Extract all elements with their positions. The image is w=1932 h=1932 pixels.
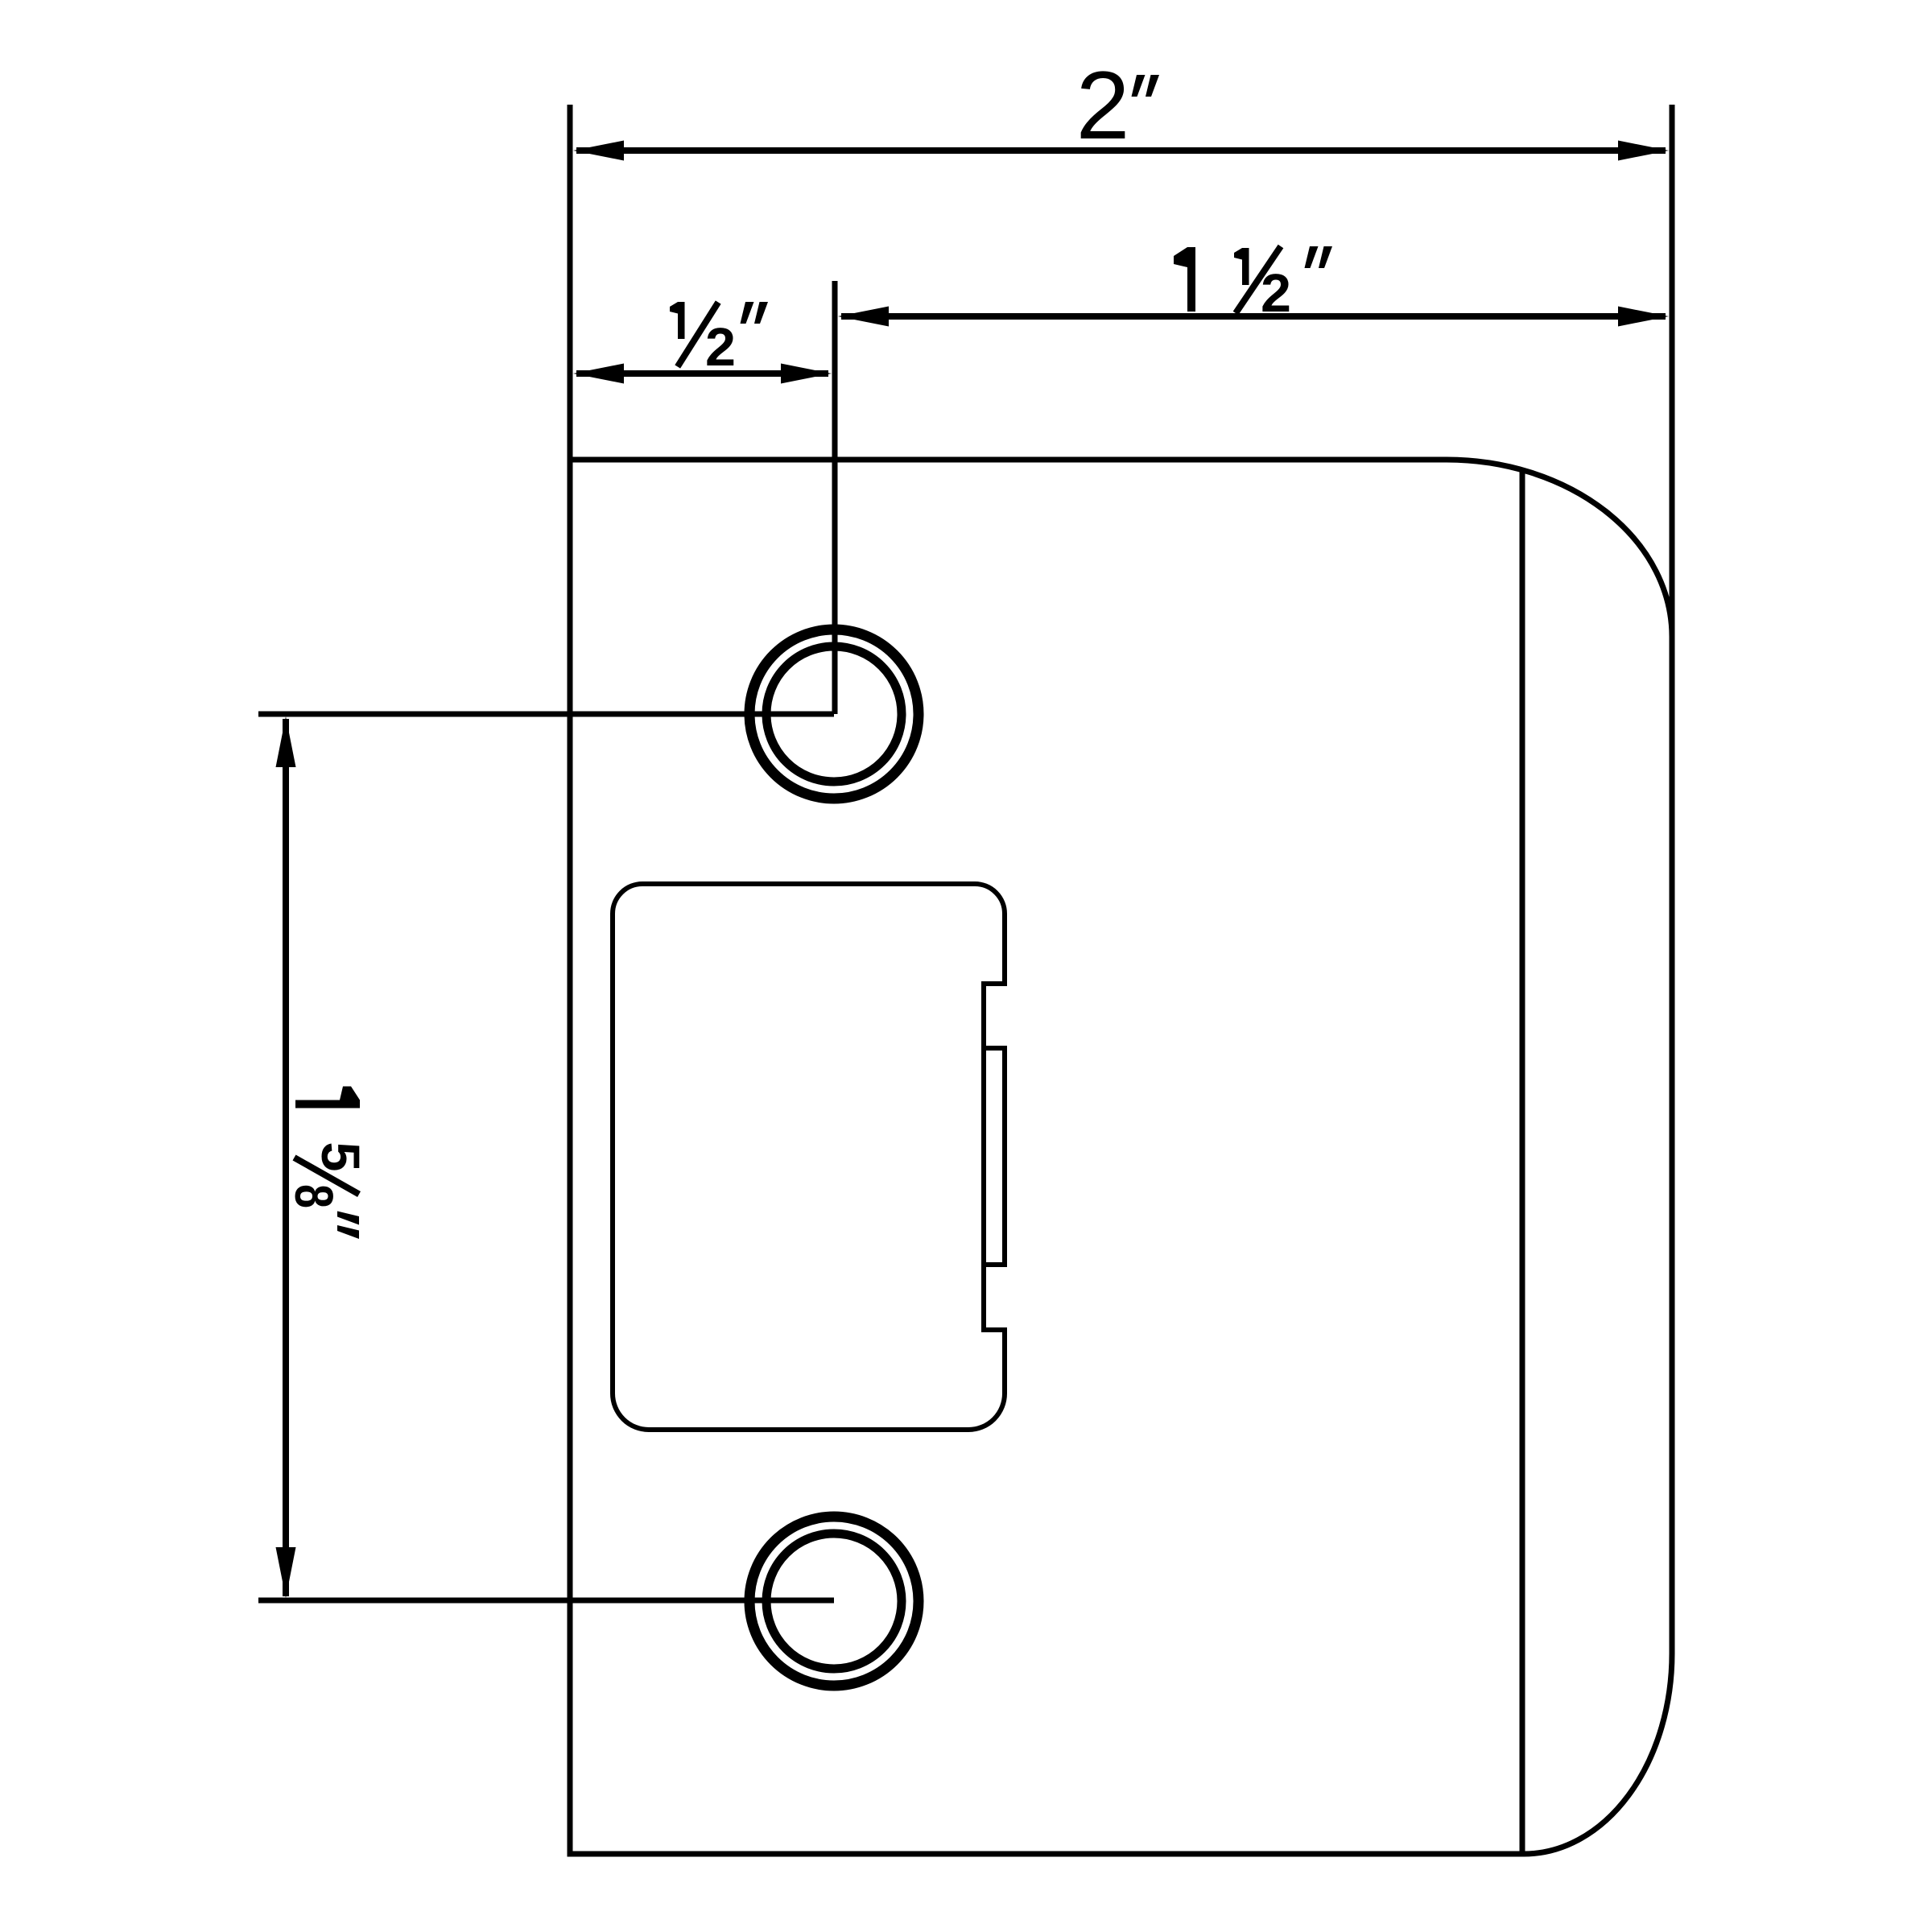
hole center extension line bottom: [258, 1598, 834, 1604]
1 5/8in dimension line (vertical): [283, 719, 289, 1596]
plate outline: [570, 460, 1672, 1854]
label 2 inch: [1076, 52, 1159, 159]
2in dimension line: [576, 147, 1666, 154]
extension line right (2in / 1.5in): [1670, 105, 1675, 640]
label 1/2 inch: [670, 302, 768, 378]
svg-text:2: 2: [705, 317, 736, 378]
bottom screw hole: [749, 1517, 919, 1686]
extension line middle (hole center): [832, 281, 838, 714]
label 1 5/8 inch (rotated 90deg): [283, 1087, 370, 1240]
1 1/2in dimension line: [841, 313, 1666, 320]
svg-text:2: 2: [1076, 52, 1130, 159]
svg-text:8: 8: [283, 1184, 344, 1208]
svg-text:5: 5: [310, 1142, 370, 1172]
latch opening: [613, 884, 1005, 1430]
latch tab: [984, 1048, 1005, 1265]
hole center extension line top: [258, 712, 834, 717]
plate lip fold line: [1520, 469, 1525, 1852]
extension line left (2in): [568, 105, 573, 460]
top screw hole: [749, 630, 919, 799]
1/2in dimension line: [576, 370, 828, 377]
label 1 1/2 inch: [1174, 246, 1332, 324]
